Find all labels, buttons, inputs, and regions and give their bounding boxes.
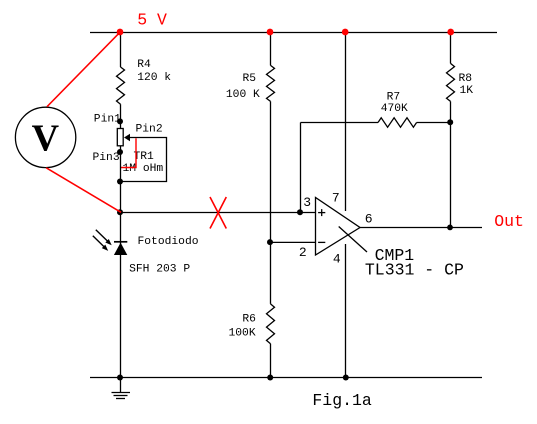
wire wiper to right and down to column A (121, 138, 167, 182)
node junction dot plus input (297, 209, 303, 215)
node junction dot at photodiode node (117, 209, 123, 215)
resistor R7 (378, 118, 417, 127)
svg-text:Fig.1a: Fig.1a (312, 391, 372, 410)
svg-text:R6: R6 (242, 314, 256, 326)
wire column A top (5V rail to R4) (120, 33, 122, 68)
wire top 5V rail (90, 32, 497, 34)
wire column B top (5V rail to R5) (270, 33, 272, 66)
red X mark annotation on wire (210, 197, 226, 229)
wire mid node to op-amp plus input (121, 212, 316, 214)
svg-text:120 k: 120 k (137, 72, 171, 84)
op-amp U1 triangle (316, 198, 361, 256)
svg-text:TL331 - CP: TL331 - CP (365, 261, 464, 280)
svg-text:100 K: 100 K (226, 89, 260, 101)
wire column B middle (R5 to R6) (270, 101, 272, 304)
wire red wiper jumper (annotation) (121, 138, 136, 167)
svg-text:R5: R5 (243, 73, 257, 85)
resistor R8 (447, 63, 455, 101)
node red dot 5V rail at column B (267, 29, 274, 36)
pointer line to CMP1 label (339, 227, 367, 253)
svg-text:1K: 1K (460, 85, 474, 97)
node junction dot pin2 tee (267, 239, 273, 245)
svg-text:1M oHm: 1M oHm (123, 163, 164, 175)
node junction dot R6 bottom (267, 375, 273, 381)
wire R7 left segment (301, 122, 379, 124)
resistor R4 (117, 67, 125, 104)
photodiode D1 cathode bar (114, 241, 127, 243)
svg-text:Pin2: Pin2 (136, 123, 163, 135)
op-amp plus sign (318, 209, 325, 216)
svg-text:R4: R4 (137, 59, 151, 71)
svg-text:SFH 203 P: SFH 203 P (129, 263, 190, 275)
node red dot 5V rail at column D (447, 29, 454, 36)
wire red voltmeter top lead (47, 32, 120, 107)
photodiode light arrow 2 (93, 236, 108, 251)
wire column C pin7 (5V rail to op-amp) (345, 33, 347, 212)
svg-text:3: 3 (303, 195, 311, 210)
ground symbol (112, 378, 131, 399)
trimmer TR1 body (117, 129, 123, 146)
svg-text:R7: R7 (387, 91, 401, 103)
svg-text:Pin3: Pin3 (93, 152, 120, 164)
svg-text:Pin1: Pin1 (94, 113, 121, 125)
node junction dot R7/R8 (447, 119, 453, 125)
node Pin1 junction dot (117, 118, 123, 124)
svg-text:5 V: 5 V (137, 11, 167, 30)
node red dot 5V rail at column A (117, 29, 124, 36)
wire column B bottom (R6 to ground rail) (270, 344, 272, 378)
wire pin2 tee to op-amp minus input (271, 241, 316, 243)
svg-text:7: 7 (332, 191, 340, 206)
wire column D top (5V rail to R8) (450, 33, 452, 64)
svg-text:R8: R8 (459, 73, 473, 85)
node junction dot below trimmer (117, 179, 123, 185)
svg-text:470K: 470K (381, 103, 408, 115)
photodiode D1 triangle (114, 243, 127, 255)
node junction dot output (447, 225, 453, 231)
photodiode light arrow 1 (96, 230, 112, 246)
svg-text:4: 4 (333, 252, 341, 267)
resistor R5 (267, 65, 275, 101)
trimmer TR1 wiper arrow (124, 134, 130, 141)
op-amp minus sign (318, 241, 325, 243)
svg-text:V: V (32, 118, 60, 160)
node junction dot pin4 bottom (343, 375, 349, 381)
node Pin3 junction dot (117, 149, 123, 155)
wire column D (R8 to output wire) (450, 101, 452, 227)
voltmeter V1 circle (15, 107, 75, 167)
wire output (360, 227, 482, 229)
svg-text:Out: Out (494, 212, 524, 231)
wire feedback down to plus input node (300, 123, 302, 213)
wire red voltmeter bottom lead (46, 168, 121, 213)
wire R7 right segment (417, 122, 451, 124)
wire R4 to trimmer (120, 104, 122, 128)
svg-text:2: 2 (299, 245, 307, 260)
wire bottom ground rail (90, 377, 482, 379)
wire column C pin4 (op-amp to ground rail) (345, 244, 347, 378)
node red dot 5V rail at column C (342, 29, 349, 36)
svg-text:6: 6 (365, 211, 373, 226)
svg-text:100K: 100K (229, 328, 256, 340)
svg-text:Fotodiodo: Fotodiodo (138, 236, 199, 248)
node bottom-left junction dot (117, 375, 123, 381)
wire trimmer down column A to bottom rail (120, 146, 122, 378)
resistor R6 (267, 304, 275, 344)
